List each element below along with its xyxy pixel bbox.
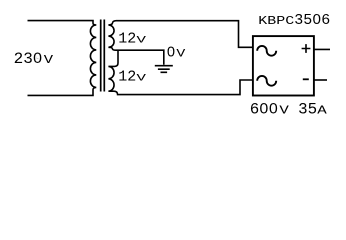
- svg-text:3506: 3506: [294, 12, 330, 29]
- wire negative output stub: [314, 79, 327, 81]
- wire positive output stub: [314, 48, 330, 50]
- svg-text:230: 230: [14, 50, 43, 68]
- svg-text:V: V: [44, 54, 54, 67]
- AC input symbol lower (pin ~2): [257, 76, 276, 86]
- ground symbol (0V net): [155, 66, 173, 73]
- svg-text:KBPC: KBPC: [258, 16, 294, 29]
- bridge rectifier U1 KBPC3506 body: [253, 36, 314, 95]
- svg-text:0: 0: [167, 46, 176, 62]
- svg-text:V: V: [137, 35, 146, 47]
- transformer T1 primary winding with AC input wires (230V side): [28, 21, 97, 96]
- svg-text:V: V: [137, 73, 146, 85]
- svg-text:V: V: [176, 47, 185, 60]
- svg-text:12: 12: [118, 69, 136, 86]
- svg-text:12: 12: [118, 31, 136, 48]
- svg-text:35: 35: [298, 101, 317, 119]
- transformer core: [101, 20, 105, 92]
- transformer T1 secondary lower winding, center-tap junction lead, and wire to bridge AC input 2: [108, 50, 253, 94]
- svg-text:600: 600: [250, 101, 278, 119]
- AC input symbol upper (pin ~1): [257, 46, 276, 56]
- svg-text:A: A: [317, 105, 327, 118]
- plus terminal mark (pin +): [302, 44, 311, 53]
- svg-text:V: V: [279, 105, 289, 118]
- transformer T1 secondary upper winding, wire to bridge AC input 1, and center-tap wire to ground node 0V: [108, 21, 253, 65]
- minus terminal mark (pin -): [303, 78, 309, 80]
